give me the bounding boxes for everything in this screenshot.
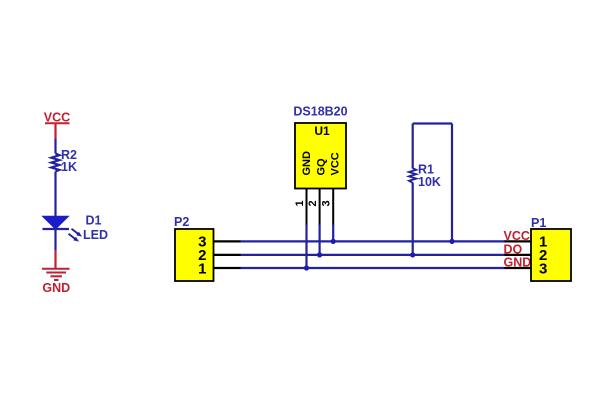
svg-text:LED: LED [83, 228, 108, 242]
wire GND net [241, 267, 506, 269]
wire VCC net [241, 240, 506, 242]
svg-text:GND: GND [42, 281, 70, 295]
junction R1 left leg / DQ [410, 252, 415, 257]
connector P2 [175, 229, 214, 281]
wire DQ net [241, 254, 506, 256]
wire U1 pin2 to DQ net [319, 225, 321, 255]
svg-text:1K: 1K [61, 160, 77, 174]
wire D1 to ground [54, 229, 56, 250]
resistor R1 [409, 124, 452, 255]
junction U1 pin3 / VCC [331, 239, 336, 244]
svg-text:3: 3 [321, 200, 333, 206]
IC U1 [295, 123, 346, 189]
junction U1 pin1 / GND [304, 265, 309, 270]
power symbol VCC (left) [44, 110, 70, 139]
svg-text:VCC: VCC [329, 152, 341, 175]
junction R1 right leg / VCC [449, 239, 454, 244]
svg-text:3: 3 [539, 261, 547, 278]
P2 pin 2 stub [214, 254, 241, 256]
pin 3 of U1 [332, 189, 334, 225]
pin 1 of U1 [306, 189, 308, 225]
LED D1 [43, 216, 83, 241]
wire U1 pin1 to GND net [305, 225, 307, 269]
wire U1 pin3 to VCC net [332, 225, 334, 242]
P1 pin 3 stub [505, 267, 532, 269]
P2 pin 3 stub [214, 240, 241, 242]
connector P1 [531, 229, 571, 281]
svg-text:GQ: GQ [316, 158, 328, 176]
svg-text:10K: 10K [418, 175, 441, 189]
svg-text:VCC: VCC [44, 110, 70, 124]
svg-text:2: 2 [307, 200, 319, 206]
wire R2 to D1 [54, 172, 56, 217]
svg-text:D1: D1 [86, 213, 102, 227]
svg-text:P1: P1 [531, 216, 546, 230]
P1 pin 2 stub [505, 254, 532, 256]
junction U1 pin2 / DQ [317, 252, 322, 257]
wire VCC to R2 [54, 139, 56, 154]
svg-text:DS18B20: DS18B20 [293, 105, 347, 119]
P1 pin 1 stub [505, 240, 532, 242]
svg-text:1: 1 [198, 261, 206, 278]
svg-text:1: 1 [294, 200, 306, 206]
resistor R2 [51, 154, 59, 172]
svg-text:GND: GND [301, 151, 313, 176]
P2 pin 1 stub [214, 267, 241, 269]
pin 2 of U1 [319, 189, 321, 225]
svg-text:P2: P2 [174, 215, 189, 229]
svg-text:U1: U1 [314, 124, 330, 138]
ground symbol [42, 250, 70, 295]
